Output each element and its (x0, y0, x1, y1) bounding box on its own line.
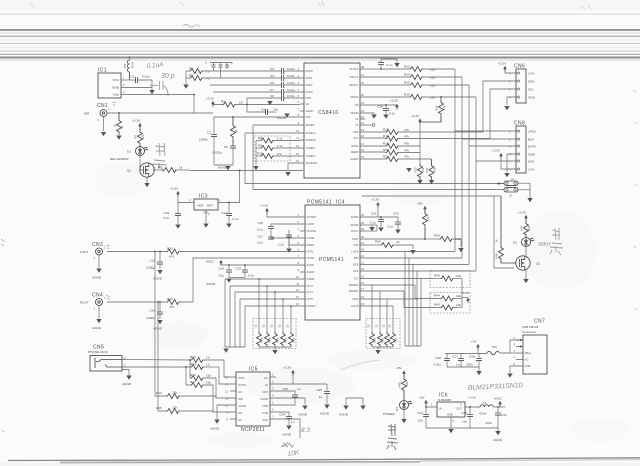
svg-text:R5: R5 (221, 100, 225, 104)
resistor R21 (365, 155, 431, 162)
svg-text:C11: C11 (150, 259, 156, 263)
wire vbus rail (445, 353, 487, 355)
wire data series drops (405, 252, 421, 347)
svg-text:AUDIO: AUDIO (350, 157, 359, 161)
svg-text:R35: R35 (375, 240, 381, 244)
ground (226, 224, 231, 228)
wire GPI2 (365, 298, 418, 300)
wire OUTL (180, 251, 300, 253)
svg-text:13: 13 (296, 295, 299, 299)
svg-text:+3.3V: +3.3V (411, 114, 420, 118)
svg-text:+3.3V: +3.3V (468, 396, 477, 400)
svg-text:R2: R2 (189, 67, 193, 71)
svg-text:+3.3V: +3.3V (498, 62, 507, 66)
svg-text:15: 15 (296, 152, 299, 156)
svg-text:1.1k: 1.1k (277, 137, 283, 141)
resistor R41 (375, 291, 385, 347)
svg-text:DATA: DATA (528, 145, 537, 149)
svg-text:GND: GND (112, 86, 120, 90)
svg-text:R32: R32 (292, 337, 296, 342)
svg-text:AGND: AGND (493, 438, 503, 442)
LED D1 REC ERROR (110, 147, 148, 162)
ground (378, 228, 383, 232)
node top cap rail (205, 61, 232, 65)
capacitor C5 (270, 81, 300, 88)
connector CN1 (84, 103, 110, 122)
power +3.3V amp (283, 366, 295, 376)
node VA junction (246, 104, 248, 106)
svg-text:18: 18 (239, 101, 243, 105)
svg-text:13: 13 (225, 383, 228, 387)
svg-text:R17: R17 (383, 128, 389, 132)
svg-text:C1: C1 (131, 75, 135, 79)
capacitor C27 (452, 354, 464, 368)
svg-text:2.2u: 2.2u (278, 243, 284, 247)
wire D3 gnd (403, 410, 405, 420)
svg-text:AGND: AGND (210, 427, 220, 431)
svg-text:22: 22 (367, 324, 371, 327)
svg-text:BCK: BCK (528, 138, 535, 142)
svg-text:RXSEL1: RXSEL1 (306, 131, 317, 135)
svg-text:R40: R40 (434, 274, 440, 278)
svg-text:VL: VL (355, 117, 359, 121)
wire SDA bus (483, 81, 512, 132)
capacitor C9 (247, 105, 278, 116)
svg-text:GND: GND (525, 364, 531, 368)
svg-text:22k: 22k (172, 406, 177, 410)
svg-text:C5: C5 (270, 81, 274, 85)
svg-text:OUTR: OUTR (307, 256, 315, 260)
capacitor C30 (461, 406, 473, 428)
svg-text:0.01u: 0.01u (142, 75, 150, 79)
resistor R17 (365, 128, 483, 135)
ground (383, 115, 388, 119)
svg-text:10u: 10u (462, 420, 467, 424)
svg-text:R51: R51 (425, 167, 429, 172)
svg-text:+3.3V: +3.3V (518, 211, 527, 215)
svg-text:AGND: AGND (92, 326, 102, 330)
wire J2 select line (253, 125, 503, 190)
svg-text:IC1: IC1 (98, 68, 107, 74)
wire CN1 signal (107, 112, 213, 114)
svg-text:R27: R27 (190, 380, 196, 384)
svg-text:R10: R10 (257, 152, 263, 156)
svg-text:C10: C10 (163, 211, 169, 215)
svg-text:+3.3V: +3.3V (283, 366, 292, 370)
capacitor CX1 (212, 63, 216, 72)
svg-text:0.1u: 0.1u (370, 221, 376, 225)
svg-text:C23: C23 (417, 411, 423, 415)
svg-text:LRCK: LRCK (351, 250, 358, 254)
wire RERR net (190, 170, 303, 172)
svg-text:PVM: PVM (262, 411, 269, 415)
wire 10k rail (461, 279, 463, 308)
capacitor C4 (270, 74, 300, 81)
connector CN8 (509, 121, 537, 174)
svg-text:OSCLK: OSCLK (349, 75, 358, 79)
ground (96, 319, 101, 323)
svg-text:AGVS: AGVS (351, 304, 359, 308)
svg-text:AGND: AGND (238, 404, 246, 408)
wire RXN branch (246, 98, 248, 105)
svg-text:10: 10 (296, 275, 299, 279)
svg-text:14: 14 (296, 302, 299, 306)
node TX testpoint (365, 124, 375, 127)
resistor R37 (417, 202, 430, 240)
svg-text:22: 22 (375, 324, 379, 327)
ground (157, 320, 162, 324)
wire reg gnd rail (426, 428, 498, 431)
svg-text:C26: C26 (435, 356, 441, 360)
svg-text:R6: R6 (158, 165, 162, 169)
wire AGVS (365, 305, 393, 307)
ground (369, 227, 374, 231)
resistor R42 (382, 299, 392, 347)
dashed box att left (253, 319, 296, 349)
svg-text:C21: C21 (371, 212, 377, 216)
wire usb gnd (510, 366, 516, 373)
svg-text:R22: R22 (190, 355, 196, 359)
handwriting tick CN3 (106, 245, 110, 249)
svg-text:R26: R26 (260, 337, 264, 342)
capacitor C7 (270, 88, 300, 95)
resistor R2 (186, 67, 282, 74)
wire DVDD (365, 216, 398, 218)
svg-text:CPP: CPP (262, 390, 268, 394)
svg-text:1000p: 1000p (199, 138, 208, 142)
svg-text:C14: C14 (149, 309, 155, 313)
svg-text:0.01u: 0.01u (433, 363, 441, 367)
svg-text:R47: R47 (520, 225, 524, 230)
svg-text:10u: 10u (219, 274, 224, 278)
svg-text:R24: R24 (190, 362, 196, 366)
svg-text:8.3: 8.3 (301, 427, 310, 434)
svg-text:14: 14 (225, 376, 228, 380)
op CS8416 IC2 (304, 63, 360, 178)
svg-text:AUXEON: AUXEON (306, 161, 317, 165)
ground (285, 172, 290, 176)
LED D2 (513, 238, 534, 247)
svg-text:2200p: 2200p (146, 266, 155, 270)
wire OUTR (180, 258, 300, 302)
wire RXN line (247, 97, 282, 99)
ground AGND (206, 279, 232, 287)
svg-text:C25: C25 (316, 388, 322, 392)
wire AGND rail (214, 164, 233, 166)
svg-text:C27: C27 (452, 355, 458, 359)
svg-text:REC ERROR: REC ERROR (110, 157, 129, 161)
svg-text:CPM: CPM (262, 404, 269, 408)
ground (507, 374, 512, 378)
ground (371, 115, 376, 119)
svg-text:10: 10 (225, 404, 228, 408)
wire gate line 2 (494, 197, 514, 269)
capacitor CX2 (219, 63, 223, 79)
svg-text:25: 25 (361, 93, 364, 97)
svg-text:22k: 22k (206, 374, 211, 378)
ferrite bead FB1 (487, 340, 523, 355)
svg-text:R19: R19 (383, 142, 389, 146)
svg-text:ROUT: ROUT (80, 301, 89, 305)
svg-text:75: 75 (206, 70, 210, 74)
power AVCC (206, 260, 223, 266)
svg-text:26: 26 (361, 81, 364, 85)
svg-text:220: 220 (141, 134, 145, 139)
wire Q1 source to ground (146, 177, 148, 183)
svg-text:R46: R46 (495, 253, 499, 258)
svg-text:19: 19 (361, 128, 364, 132)
svg-text:TXSEL1: TXSEL1 (306, 146, 317, 150)
IC3 reset (189, 194, 221, 217)
resistor R9 (256, 144, 300, 151)
jumper J1 (497, 177, 531, 185)
dashed box att right (366, 319, 400, 349)
svg-text:D3: D3 (395, 407, 399, 411)
svg-text:10u: 10u (273, 108, 278, 112)
resistor R54 (420, 96, 446, 122)
ground AGND (218, 166, 231, 171)
ground (96, 269, 101, 273)
svg-text:VD: VD (355, 103, 359, 107)
svg-text:C17: C17 (257, 235, 263, 239)
svg-text:22: 22 (361, 115, 364, 119)
bottom paper edge (8, 458, 640, 461)
svg-text:DGND: DGND (351, 223, 359, 227)
power +5V usb (471, 340, 480, 354)
svg-text:10k: 10k (456, 274, 461, 278)
wire att right rail (372, 346, 421, 350)
svg-text:OUTL: OUTL (238, 376, 246, 380)
ground (302, 406, 307, 410)
power +5V led (396, 366, 406, 376)
svg-text:R39: R39 (373, 337, 377, 342)
svg-text:CAPM: CAPM (307, 236, 316, 240)
svg-text:CN3: CN3 (92, 242, 103, 248)
wire GPO line (362, 195, 501, 197)
svg-text:R15: R15 (167, 247, 173, 251)
wire jack sleeve (122, 370, 129, 376)
svg-text:23: 23 (361, 248, 364, 252)
resistor R15b (365, 81, 469, 88)
svg-text:MODE2: MODE2 (349, 283, 359, 287)
wire LDOO (365, 230, 377, 232)
svg-text:R20: R20 (383, 148, 389, 152)
svg-text:2200p: 2200p (146, 316, 155, 320)
svg-text:220: 220 (430, 76, 435, 80)
svg-text:C24: C24 (279, 413, 285, 417)
svg-text:NC: NC (264, 376, 268, 380)
wire DGND (365, 224, 377, 226)
dac PCM5141 IC4 (305, 200, 360, 321)
svg-text:220: 220 (430, 96, 435, 100)
svg-text:CN6: CN6 (514, 64, 525, 70)
svg-text:30 p: 30 p (161, 73, 175, 80)
connector CN4 (80, 293, 106, 311)
svg-text:1u: 1u (456, 363, 460, 367)
svg-text:IC3: IC3 (199, 194, 208, 200)
svg-text:Q2: Q2 (536, 262, 540, 266)
wire J1 select line (245, 133, 503, 184)
svg-text:L3: L3 (483, 401, 487, 405)
svg-text:PCM5141: PCM5141 (319, 257, 344, 263)
svg-text:CN1: CN1 (97, 103, 108, 109)
svg-text:OLRCK: OLRCK (349, 67, 358, 71)
svg-text:LRCK: LRCK (528, 130, 537, 134)
wire OSCLK bus (461, 77, 463, 258)
svg-text:99KH: 99KH (538, 242, 551, 248)
capacitor C25 (316, 384, 330, 404)
svg-text:NC: NC (238, 390, 242, 394)
svg-text:AVDD: AVDD (307, 263, 314, 267)
svg-text:SCL: SCL (528, 88, 534, 92)
svg-text:47k: 47k (277, 152, 282, 156)
wire IC3 VDD (178, 197, 194, 214)
wire D1 to Q1 gate (140, 156, 144, 171)
wire CN8 BCK (462, 138, 512, 140)
inductor L1 (123, 56, 135, 80)
ground (116, 136, 121, 140)
svg-text:SCL: SCL (353, 136, 359, 140)
wire DIR net vertical (193, 95, 195, 114)
svg-text:AVCC: AVCC (206, 260, 215, 264)
svg-text:NJM2845: NJM2845 (438, 398, 452, 402)
svg-text:47k: 47k (404, 149, 409, 153)
svg-text:R3: R3 (189, 74, 193, 78)
svg-text:C12: C12 (221, 211, 227, 215)
regulator NJM2845 IC6 (430, 393, 480, 429)
ground (527, 198, 532, 202)
svg-text:GND: GND (447, 413, 453, 417)
svg-text:0.1u: 0.1u (257, 228, 263, 232)
ground (523, 279, 528, 283)
svg-text:0.1u: 0.1u (248, 274, 254, 278)
svg-text:1u: 1u (291, 420, 295, 424)
svg-text:47uH: 47uH (479, 412, 486, 416)
svg-text:C19: C19 (235, 267, 241, 271)
wire IGNT (365, 238, 425, 240)
power AVCC out (494, 397, 503, 408)
svg-text:VBus: VBus (525, 351, 532, 355)
svg-text:R1: R1 (120, 125, 124, 129)
wire CN8 LRCK (455, 130, 512, 132)
wire OUTL to amp (224, 360, 230, 377)
svg-text:R31: R31 (284, 337, 288, 342)
svg-text:22k: 22k (206, 381, 211, 385)
resistor R26 (189, 359, 216, 398)
wire jack ring (122, 366, 190, 368)
svg-text:0.01u: 0.01u (287, 74, 295, 78)
svg-text:AGND: AGND (153, 277, 163, 281)
wire MODE1 (365, 290, 404, 292)
capacitor C12 mclk (365, 59, 397, 70)
resistor R16 (365, 93, 476, 100)
svg-text:21: 21 (361, 121, 364, 125)
resistor R14 (365, 73, 462, 80)
svg-text:47k: 47k (404, 135, 409, 139)
svg-text:AGND: AGND (306, 109, 314, 113)
svg-text:Connector: Connector (522, 330, 536, 334)
svg-text:CN8: CN8 (514, 121, 525, 127)
svg-text:26: 26 (361, 227, 364, 231)
wire FLT (365, 278, 433, 280)
svg-text:470: 470 (169, 305, 174, 309)
svg-text:C29: C29 (282, 387, 288, 391)
svg-text:C28: C28 (469, 355, 475, 359)
svg-text:22k: 22k (172, 391, 177, 395)
svg-text:47k: 47k (404, 128, 409, 132)
ground (360, 406, 365, 410)
wire IC3 RST (218, 171, 240, 203)
wire AUXEON (288, 163, 300, 171)
handwriting faint diagonal (340, 360, 380, 370)
ground mid (406, 168, 411, 172)
svg-text:202: 202 (123, 63, 127, 68)
svg-text:1u: 1u (319, 395, 323, 399)
capacitor C31 (485, 406, 507, 428)
svg-text:AGND: AGND (320, 412, 330, 416)
connector CN5 phone jack (88, 345, 126, 372)
svg-text:23: 23 (361, 109, 364, 113)
svg-text:DIN: DIN (354, 256, 359, 260)
svg-text:21: 21 (361, 261, 364, 265)
dashed box select resistors (254, 136, 290, 161)
transistor Q1 (127, 163, 154, 177)
resistor R23 (154, 251, 231, 399)
svg-text:47k: 47k (404, 155, 409, 159)
svg-text:Vout: Vout (113, 93, 119, 97)
capacitor C24 (276, 412, 295, 425)
PCM5141 right pins (349, 213, 365, 308)
svg-text:AGND: AGND (307, 270, 315, 274)
wire SCK long (365, 270, 476, 272)
wire R2 R3 common (185, 71, 187, 84)
wire amp agnd (217, 405, 230, 419)
LED D3 POWER (383, 401, 412, 417)
svg-text:IC5: IC5 (249, 367, 258, 373)
svg-text:16: 16 (361, 148, 364, 152)
svg-text:NC: NC (238, 418, 242, 422)
resistor R39 (367, 285, 377, 347)
svg-text:AGND: AGND (282, 433, 292, 437)
svg-text:10u: 10u (418, 419, 423, 423)
wire RMCK bus (475, 97, 477, 271)
svg-text:BCK: BCK (353, 263, 359, 267)
svg-text:C8: C8 (270, 94, 274, 98)
CS8416 left pins (296, 67, 317, 165)
svg-text:R30: R30 (276, 337, 280, 342)
svg-text:D1: D1 (127, 150, 131, 154)
power +3.3V (132, 119, 142, 129)
power +3.3V led (518, 211, 528, 221)
svg-text:RXP2: RXP2 (306, 83, 314, 87)
wire att bundle (225, 279, 245, 347)
ground (126, 376, 131, 380)
svg-text:OUT: OUT (456, 407, 462, 411)
resistor R44 (415, 285, 462, 301)
ground (504, 106, 509, 110)
svg-text:GPI2: GPI2 (352, 297, 359, 301)
svg-text:FST: FST (353, 243, 358, 247)
wire Vout (121, 94, 194, 96)
svg-text:220: 220 (430, 84, 435, 88)
resistor R50 (414, 163, 426, 180)
wire pullup rail (419, 123, 421, 163)
svg-text:22: 22 (361, 254, 364, 258)
svg-text:ATT0: ATT0 (307, 297, 314, 301)
svg-text:RMCK: RMCK (351, 95, 359, 99)
resistor R22 (190, 355, 224, 363)
ground (410, 250, 415, 254)
